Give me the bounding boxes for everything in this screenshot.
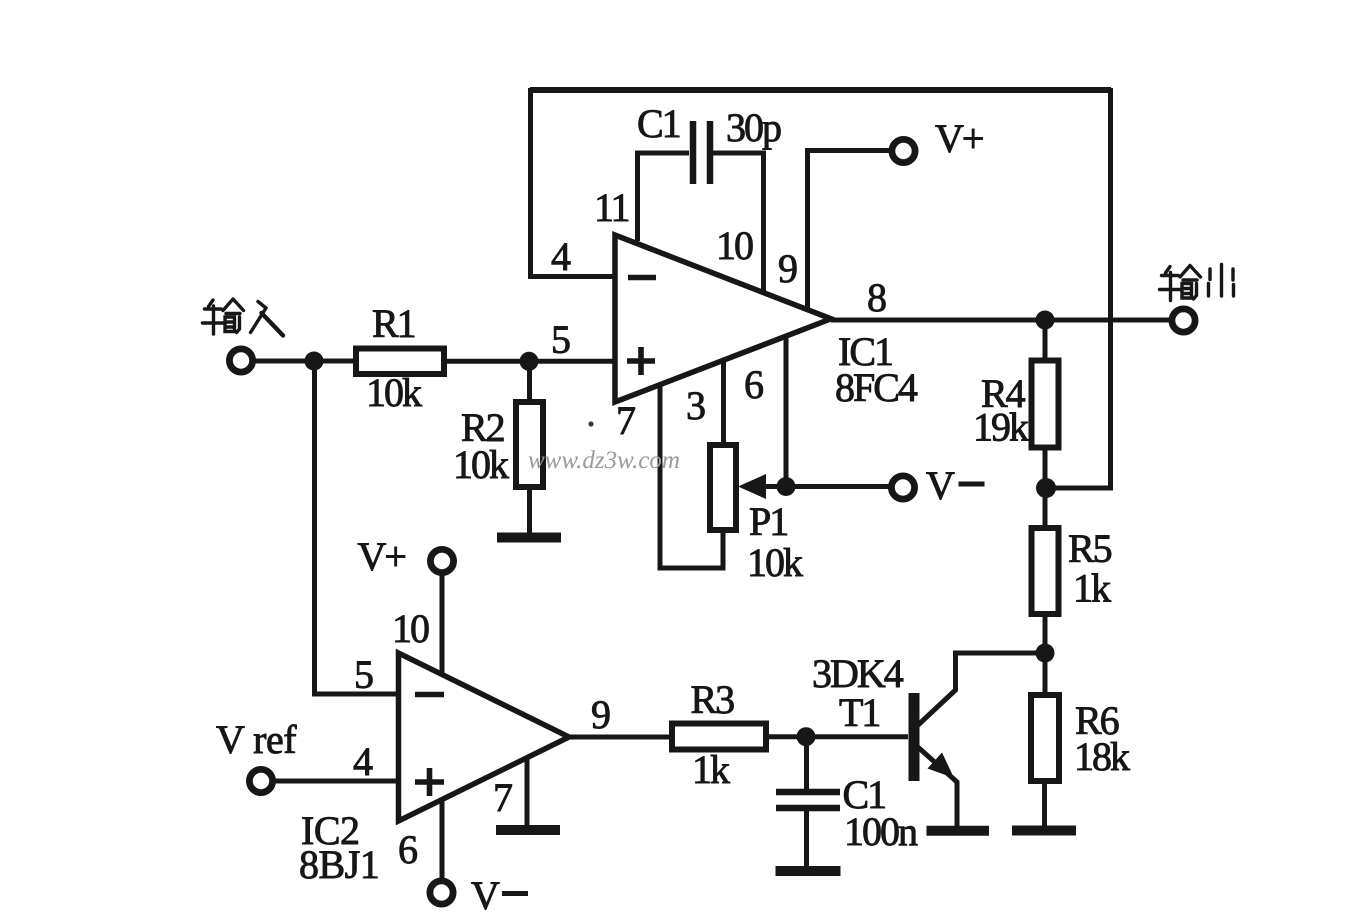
wire IC2 output to R3 (569, 735, 672, 740)
svg-text:10k: 10k (366, 370, 422, 415)
terminal V ref (249, 769, 272, 792)
terminal V+ (892, 139, 915, 162)
resistor R4 (1032, 361, 1059, 448)
svg-text:9: 9 (778, 246, 797, 291)
terminal input (229, 349, 252, 372)
svg-text:4: 4 (551, 234, 571, 279)
svg-text:8FC4: 8FC4 (835, 365, 918, 410)
wire output node to R4 (1043, 320, 1048, 363)
wire pin7 to P1 bottom (660, 384, 723, 568)
wire R4 to node (1043, 448, 1048, 489)
wire pin6 down to wiper node (784, 337, 789, 486)
wire V+ to pin 9 (808, 151, 892, 310)
svg-text:30p: 30p (726, 105, 781, 150)
svg-text:11: 11 (594, 185, 629, 230)
svg-text:V: V (471, 873, 500, 917)
svg-text:R1: R1 (372, 301, 415, 346)
svg-text:5: 5 (354, 652, 373, 697)
ground IC2 (496, 825, 560, 835)
ground under R6 (1012, 826, 1076, 836)
wire pin3 to P1 top (721, 361, 726, 445)
op-amp IC2 minus sign (415, 692, 444, 698)
svg-text:10: 10 (392, 606, 429, 651)
transistor emitter arrow (928, 753, 955, 779)
potentiometer P1 (710, 445, 736, 530)
capacitor C1 (30p) left plate (690, 121, 697, 184)
node base junction (797, 727, 816, 746)
svg-text:10: 10 (716, 223, 753, 268)
op-amp IC2 triangle (399, 653, 570, 821)
svg-text:8: 8 (867, 275, 886, 320)
wire R5 to node (1043, 614, 1048, 653)
svg-text:R5: R5 (1068, 526, 1112, 571)
svg-text:6: 6 (398, 827, 417, 872)
wire feedback top horizontal (530, 87, 1111, 93)
wire IC1 output (831, 318, 1170, 323)
svg-text:C1: C1 (637, 101, 680, 146)
node R5-R6-collector junction (1036, 644, 1055, 663)
resistor R2 (516, 402, 543, 487)
wire feedback left vertical to pin 4 (531, 88, 616, 277)
node wiper junction (777, 477, 796, 496)
svg-text:V ref: V ref (216, 717, 297, 762)
svg-text:7: 7 (493, 775, 512, 820)
wire R6 to ground (1042, 781, 1047, 826)
wire R2 to ground (527, 487, 532, 533)
label 输入 (input) (203, 299, 284, 336)
svg-text:4: 4 (353, 739, 373, 784)
wire node to R6 (1043, 653, 1048, 695)
svg-text:19k: 19k (973, 405, 1029, 450)
wire R2 top (527, 366, 532, 402)
svg-text:3: 3 (686, 383, 705, 428)
wire R1 to pin 5 (444, 359, 615, 364)
wire node to R5 (1043, 488, 1048, 528)
wire C1 left to pin 11 (638, 153, 690, 241)
svg-text:www.dz3w.com: www.dz3w.com (528, 447, 680, 474)
resistor R3 (672, 724, 766, 750)
svg-text:V+: V+ (358, 534, 406, 579)
transistor T1 emitter (915, 745, 957, 827)
resistor R6 (1031, 695, 1059, 781)
transistor T1 bar (909, 693, 920, 781)
svg-text:P1: P1 (749, 499, 787, 544)
svg-text:8BJ1: 8BJ1 (299, 842, 379, 887)
capacitor C1 (100n) top plate (776, 789, 840, 796)
wire input vertical to IC2 pin 5 (315, 361, 399, 694)
svg-text:1k: 1k (692, 747, 730, 792)
wire V+ to pin 10 (440, 574, 445, 674)
svg-text:9: 9 (591, 692, 610, 737)
scan speckle (588, 421, 593, 426)
svg-text:7: 7 (616, 398, 635, 443)
op-amp IC1 plus sign (627, 347, 655, 375)
svg-text:10k: 10k (747, 540, 803, 585)
capacitor C1 (30p) right plate (707, 121, 714, 184)
wire feedback right vertical (1046, 88, 1111, 488)
svg-text:10k: 10k (453, 442, 509, 487)
node input junction (305, 352, 324, 371)
wire V ref to pin 4 (275, 779, 398, 784)
svg-text:T1: T1 (839, 690, 879, 735)
resistor R1 (356, 349, 444, 375)
wire pin 6 to V- (440, 800, 445, 880)
wire input to R1 (255, 359, 355, 364)
terminal output (1172, 309, 1195, 332)
wire wiper to V- (786, 484, 890, 489)
wire node to C1 100n (804, 737, 809, 789)
ground under C1 100n (776, 866, 841, 876)
svg-text:5: 5 (551, 317, 570, 362)
op-amp IC1 minus sign (628, 275, 656, 281)
node output junction (1036, 311, 1055, 330)
ground under R2 (497, 533, 561, 543)
wire C1 100n to ground (804, 811, 809, 866)
P1 wiper arrow (756, 484, 786, 489)
svg-text:R3: R3 (691, 677, 735, 722)
svg-text:1k: 1k (1073, 566, 1111, 611)
resistor R5 (1032, 528, 1059, 614)
capacitor C1 (100n) bottom plate (776, 805, 840, 812)
terminal V- mid (891, 476, 914, 499)
op-amp IC2 plus sign (415, 768, 444, 796)
op-amp IC1 triangle (615, 235, 831, 402)
terminal V- IC2 (430, 881, 453, 904)
svg-text:6: 6 (744, 362, 763, 407)
svg-text:V: V (926, 463, 955, 508)
svg-text:100n: 100n (844, 809, 918, 854)
terminal V+ IC2 (430, 549, 453, 572)
node pin5 junction (520, 352, 539, 371)
wire pin 7 IC2 to ground (525, 758, 530, 825)
transistor T1 collector (917, 653, 1045, 726)
ground under emitter (927, 826, 990, 836)
svg-text:V+: V+ (935, 116, 983, 161)
node R4-R5 junction (1036, 478, 1056, 498)
svg-text:18k: 18k (1074, 734, 1130, 779)
wire C1 right to pin 10 (713, 153, 764, 292)
label 输出 (output) (1160, 265, 1234, 301)
wire R3 to base (766, 734, 908, 739)
